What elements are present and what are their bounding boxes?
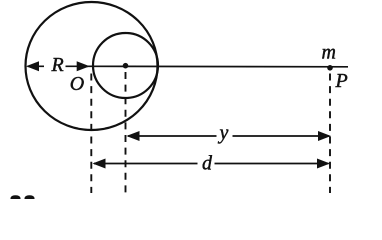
sphere (large circle) O	[26, 2, 158, 130]
cropped glyph fragments at bottom-left	[11, 195, 21, 199]
cavity (small circle)	[93, 33, 158, 98]
R dimension left arrow	[26, 61, 44, 71]
svg-text:P: P	[335, 70, 348, 92]
svg-text:m: m	[322, 42, 336, 64]
svg-text:O: O	[70, 73, 84, 95]
svg-text:y: y	[218, 122, 229, 144]
svg-text:R: R	[51, 54, 64, 76]
dashed projection line below cavity centre	[125, 72, 127, 193]
dimension line d (double arrow)	[93, 159, 331, 169]
svg-text:d: d	[202, 153, 213, 175]
dimension line y (double arrow)	[127, 131, 332, 141]
dashed projection line below O	[90, 74, 92, 194]
node: point P dot	[327, 65, 333, 71]
R dimension right arrow	[66, 61, 90, 71]
dashed projection line below P	[329, 74, 331, 194]
node: cavity centre dot	[123, 63, 129, 69]
wire: main horizontal axis line	[85, 65, 348, 68]
